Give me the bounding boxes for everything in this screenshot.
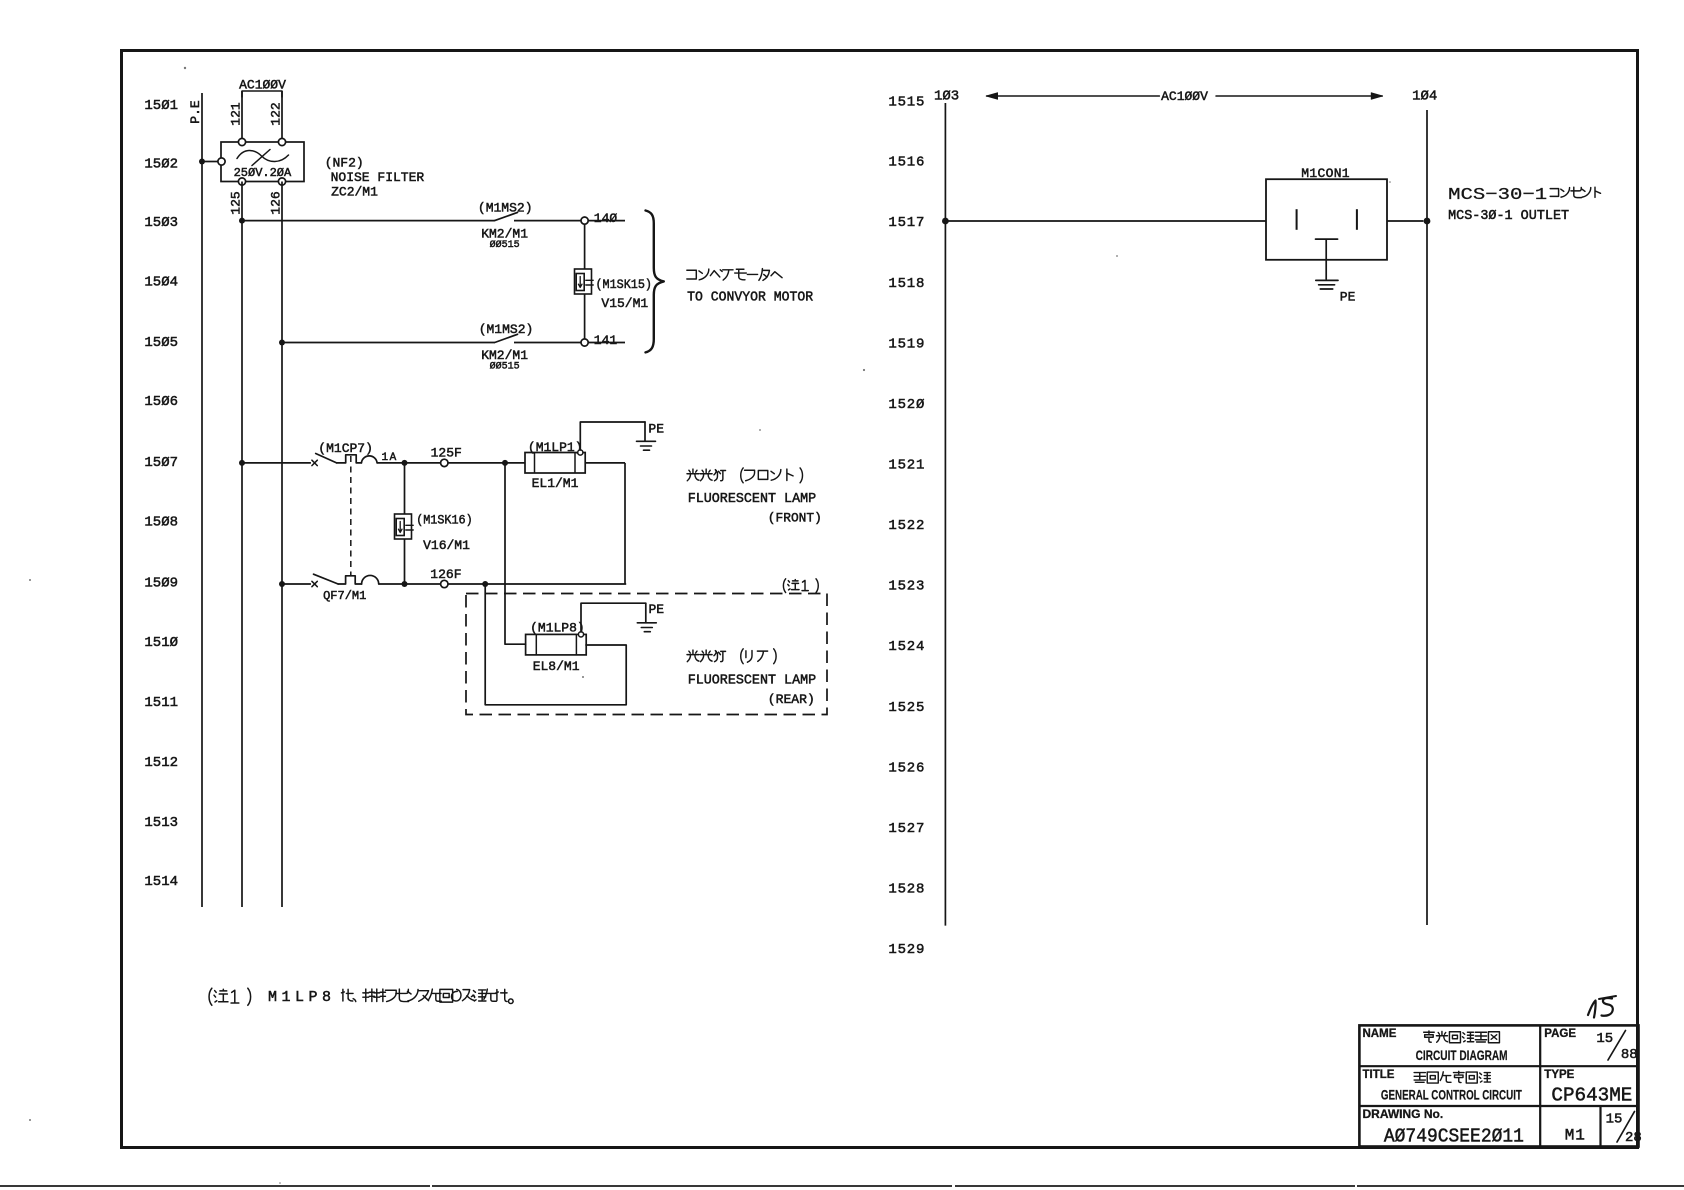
V15 arrow xyxy=(578,277,582,288)
V15 capacitor marks xyxy=(586,280,593,285)
svg-text:15Ø2: 15Ø2 xyxy=(144,157,178,173)
wire 1505 to 141 xyxy=(514,342,581,344)
surge killer V15/M1 (M1SK15) xyxy=(575,269,592,294)
M1CON1 left slot xyxy=(1296,209,1298,230)
svg-text:TO CONVYOR MOTOR: TO CONVYOR MOTOR xyxy=(687,291,813,306)
ground PE (EL1) xyxy=(644,422,646,441)
breaker QF7/M1 blade xyxy=(314,574,339,584)
wire 1509 to EL1 return xyxy=(485,583,626,585)
svg-text:1Ø3: 1Ø3 xyxy=(934,89,959,105)
junction PE/NF2 xyxy=(199,159,205,165)
svg-text:15Ø1: 15Ø1 xyxy=(144,98,178,114)
junction 125/1503 xyxy=(239,218,245,224)
svg-text:125: 125 xyxy=(229,191,244,214)
svg-text:1518: 1518 xyxy=(888,276,925,292)
svg-text:V15/M1: V15/M1 xyxy=(601,296,648,311)
svg-text:(M1LP1): (M1LP1) xyxy=(528,440,583,455)
arrow AC100V span xyxy=(987,95,1383,97)
wire EL8 feed from 1507 xyxy=(505,463,526,644)
svg-text:QF7/M1: QF7/M1 xyxy=(323,589,366,603)
terminal EL1 PE xyxy=(578,450,583,455)
svg-text:GENERAL CONTROL CIRCUIT: GENERAL CONTROL CIRCUIT xyxy=(1381,1088,1523,1103)
wire EL1 right xyxy=(585,462,625,464)
wire 126 (vertical) xyxy=(281,182,283,908)
title (japanese) circuit diagram xyxy=(1424,1031,1500,1043)
svg-text:(NF2): (NF2) xyxy=(325,156,364,171)
wire to EL1 xyxy=(505,462,525,464)
NF2 slash xyxy=(252,150,270,166)
terminal 125F xyxy=(441,459,448,466)
svg-text:15Ø7: 15Ø7 xyxy=(144,455,178,471)
mechanical link dashed xyxy=(350,456,352,576)
terminal 141 xyxy=(581,339,588,346)
terminal 126 (NF2 bottom-right) xyxy=(278,178,285,185)
svg-text:1527: 1527 xyxy=(888,821,925,837)
svg-text:MCS−30−1: MCS−30−1 xyxy=(1448,186,1547,205)
connector mark x (M1CP7) xyxy=(312,460,317,465)
svg-text:1515: 1515 xyxy=(888,95,925,111)
svg-text:AØ749CSEE2Ø11: AØ749CSEE2Ø11 xyxy=(1384,1126,1524,1148)
svg-text:PE: PE xyxy=(648,421,664,436)
junction 1507/V16 xyxy=(402,460,408,466)
noise filter ZC2/M1 (NF2) body xyxy=(221,142,304,182)
wire 140 stub xyxy=(588,220,625,222)
svg-text:1A: 1A xyxy=(382,452,398,464)
breaker QF7/M1 thermal element xyxy=(338,576,362,584)
svg-text:P.E: P.E xyxy=(188,100,203,124)
svg-text:1511: 1511 xyxy=(144,695,178,711)
EL1 right cap xyxy=(574,453,576,474)
svg-text:15Ø9: 15Ø9 xyxy=(144,576,178,592)
connector mark x (QF7) xyxy=(312,581,317,586)
dashed option box (note 1) xyxy=(466,594,827,715)
svg-text:M1: M1 xyxy=(1565,1126,1586,1144)
title block divider v1 xyxy=(1539,1025,1541,1146)
wire bus 104 xyxy=(1426,110,1428,925)
wire bus 103 xyxy=(944,103,946,926)
svg-text:PE: PE xyxy=(649,602,665,617)
svg-text:1521: 1521 xyxy=(888,458,925,474)
wire P.E rail (vertical) xyxy=(201,93,203,907)
(scan specks, decorative) xyxy=(184,67,186,69)
svg-text:ØØ515: ØØ515 xyxy=(490,239,520,251)
ground PE (EL8) xyxy=(645,603,647,622)
svg-text:AC1ØØV: AC1ØØV xyxy=(239,77,286,92)
wire M1CON1 to 104 xyxy=(1387,220,1423,222)
M1CON1 ground pin xyxy=(1316,239,1338,279)
EL1 left cap xyxy=(534,453,536,474)
handwritten pencil mark 15 xyxy=(1588,1001,1596,1018)
wire V15 to 141 xyxy=(584,294,586,339)
svg-text:1514: 1514 xyxy=(144,874,178,890)
breaker M1CP7 magnetic arc xyxy=(361,456,377,463)
brace to conveyor motor xyxy=(646,211,664,353)
svg-text:1517: 1517 xyxy=(888,215,925,231)
breaker M1CP7 thermal element xyxy=(337,455,362,463)
terminal EL8 PE xyxy=(578,632,583,637)
svg-text:FLUORESCENT LAMP: FLUORESCENT LAMP xyxy=(688,492,817,507)
svg-text:(M1LP8): (M1LP8) xyxy=(530,621,585,636)
svg-text:NOISE FILTER: NOISE FILTER xyxy=(331,170,425,185)
junction 126/1505 xyxy=(279,340,285,346)
V16 capacitor marks xyxy=(406,525,413,530)
label (japanese) fluorescent lamp rear xyxy=(687,649,776,664)
svg-text:AC1ØØV: AC1ØØV xyxy=(1161,89,1208,104)
svg-text:15Ø8: 15Ø8 xyxy=(144,515,178,531)
page slash xyxy=(1608,1031,1626,1061)
EL8 right cap xyxy=(575,634,577,655)
svg-text:DRAWING No.: DRAWING No. xyxy=(1363,1107,1444,1121)
terminal 122 (NF2 top-right) xyxy=(278,138,285,145)
svg-text:152Ø: 152Ø xyxy=(888,397,925,413)
wire 1507 xyxy=(242,462,311,464)
breaker M1CP7 blade xyxy=(316,454,337,463)
svg-text:TITLE: TITLE xyxy=(1363,1069,1395,1081)
lamp EL8/M1 (M1LP8) body xyxy=(526,634,587,655)
svg-text:14Ø: 14Ø xyxy=(594,211,618,226)
junction 1509/EL8 xyxy=(482,581,488,587)
wire V16 top xyxy=(404,463,406,514)
svg-text:125F: 125F xyxy=(431,445,462,460)
wire EL8 to PE xyxy=(581,603,646,632)
V16 arrow xyxy=(398,522,402,533)
svg-text:15: 15 xyxy=(1596,1031,1613,1047)
svg-text:PE: PE xyxy=(1340,290,1356,305)
svg-text:ØØ515: ØØ515 xyxy=(490,360,520,372)
svg-text:28: 28 xyxy=(1625,1130,1642,1146)
title block xyxy=(1359,1025,1638,1146)
junction 126/1509 xyxy=(279,581,285,587)
EL8 left cap xyxy=(535,634,537,655)
terminal PE (NF2 left) xyxy=(218,158,225,165)
wire PE to NF2 xyxy=(202,161,218,163)
svg-text:(M1MS2): (M1MS2) xyxy=(479,322,534,337)
svg-text:1519: 1519 xyxy=(888,336,925,352)
wire AC100V feed bracket xyxy=(242,91,282,97)
svg-text:MCS-3Ø-1 OUTLET: MCS-3Ø-1 OUTLET xyxy=(1448,209,1569,224)
title block divider v2 (row3) xyxy=(1599,1106,1601,1147)
svg-text:(REAR): (REAR) xyxy=(768,692,815,707)
title (japanese) general control circuit xyxy=(1414,1071,1490,1083)
wire EL1 to PE xyxy=(580,422,645,450)
arrowhead left xyxy=(987,93,998,99)
svg-text:15Ø4: 15Ø4 xyxy=(144,275,178,291)
wire EL1 return vertical xyxy=(624,463,626,584)
svg-text:126: 126 xyxy=(269,191,284,214)
wire 140 to V15 xyxy=(584,224,586,269)
svg-text:15: 15 xyxy=(1606,1112,1623,1128)
contact KM2/M1 (M1MS2) upper xyxy=(495,212,518,220)
sheet slash xyxy=(1617,1112,1635,1143)
wire 1517 xyxy=(945,220,1266,222)
svg-text:126F: 126F xyxy=(430,567,461,582)
svg-text:15Ø5: 15Ø5 xyxy=(144,335,178,351)
arrowhead right xyxy=(1371,93,1382,99)
svg-text:1512: 1512 xyxy=(144,755,178,771)
svg-text:1525: 1525 xyxy=(888,700,925,716)
svg-text:NAME: NAME xyxy=(1363,1028,1397,1040)
terminal 140 xyxy=(581,217,588,224)
outlet M1CON1 body xyxy=(1266,179,1387,260)
svg-text:15Ø6: 15Ø6 xyxy=(144,394,178,410)
svg-text:EL8/M1: EL8/M1 xyxy=(533,659,580,674)
svg-text:TYPE: TYPE xyxy=(1544,1069,1574,1081)
svg-text:M1LP8: M1LP8 xyxy=(268,989,336,1006)
svg-text:CIRCUIT DIAGRAM: CIRCUIT DIAGRAM xyxy=(1416,1048,1508,1063)
lamp EL1/M1 (M1LP1) body xyxy=(525,453,585,474)
svg-text:1528: 1528 xyxy=(888,882,925,898)
terminal 121 (NF2 top-left) xyxy=(238,138,245,145)
note1 prefix xyxy=(209,988,251,1005)
bottom page scan edge xyxy=(0,1185,1684,1187)
wire 121 (to NF2) xyxy=(241,91,243,142)
svg-text:1524: 1524 xyxy=(888,639,925,655)
svg-text:EL1/M1: EL1/M1 xyxy=(532,476,579,491)
title block divider h2 xyxy=(1359,1105,1638,1107)
junction 103/1517 xyxy=(942,218,949,225)
junction 1507/EL1-EL8 xyxy=(502,460,508,466)
svg-text:(M1MS2): (M1MS2) xyxy=(478,200,533,215)
svg-text:CP643ME: CP643ME xyxy=(1551,1085,1632,1107)
breaker QF7/M1 magnetic arc xyxy=(362,575,379,584)
title block divider h1 xyxy=(1359,1065,1638,1067)
svg-text:1526: 1526 xyxy=(888,760,925,776)
wire 1509 xyxy=(282,583,311,585)
svg-text:1529: 1529 xyxy=(888,942,925,958)
svg-text:121: 121 xyxy=(229,102,244,126)
svg-text:1522: 1522 xyxy=(888,518,925,534)
junction 1509/V16 xyxy=(402,581,408,587)
NF2 sine symbol xyxy=(237,150,289,161)
M1CON1 right slot xyxy=(1356,209,1358,230)
svg-text:1Ø4: 1Ø4 xyxy=(1412,89,1437,105)
wire EL8 return xyxy=(485,584,626,705)
label (japanese) fluorescent lamp front xyxy=(687,468,802,483)
wire 125 (vertical) xyxy=(241,182,243,908)
wire 1503 to 140 xyxy=(514,220,581,222)
label (katakana) konsento xyxy=(1550,187,1600,197)
svg-text:88: 88 xyxy=(1621,1047,1638,1063)
svg-text:(M1CP7): (M1CP7) xyxy=(318,441,373,456)
svg-text:15Ø3: 15Ø3 xyxy=(144,215,178,231)
wire 141 stub xyxy=(588,342,625,344)
svg-text:V16/M1: V16/M1 xyxy=(423,538,470,553)
svg-text:1513: 1513 xyxy=(144,815,178,831)
svg-text:151Ø: 151Ø xyxy=(144,635,178,651)
svg-text:(M1SK15): (M1SK15) xyxy=(596,277,653,292)
svg-text:141: 141 xyxy=(594,333,618,348)
wire 122 (to NF2) xyxy=(281,91,283,142)
ground PE (M1CON1) xyxy=(1316,280,1338,289)
wire 1503 xyxy=(242,220,495,222)
svg-text:1523: 1523 xyxy=(888,579,925,595)
surge killer V16/M1 (M1SK16) xyxy=(395,514,412,539)
terminal 125 (NF2 bottom-left) xyxy=(238,178,245,185)
label (japanese) conveyor motor xyxy=(687,269,782,281)
note1 japanese text xyxy=(341,989,513,1004)
svg-text:122: 122 xyxy=(269,102,284,125)
contact KM2/M1 (M1MS2) lower xyxy=(495,334,518,342)
junction 104/1517 xyxy=(1424,218,1431,225)
svg-text:PAGE: PAGE xyxy=(1544,1028,1576,1040)
terminal 126F xyxy=(441,580,448,587)
svg-text:(FRONT): (FRONT) xyxy=(768,511,822,526)
wire V16 bottom xyxy=(404,539,406,584)
wire 1505 xyxy=(282,342,495,344)
label (note1) at box xyxy=(783,579,818,593)
svg-text:(M1SK16): (M1SK16) xyxy=(416,512,473,527)
junction 125/1507 xyxy=(239,460,245,466)
svg-text:1516: 1516 xyxy=(888,155,925,171)
svg-text:M1CON1: M1CON1 xyxy=(1301,166,1350,181)
svg-text:ZC2/M1: ZC2/M1 xyxy=(331,185,378,200)
svg-text:FLUORESCENT LAMP: FLUORESCENT LAMP xyxy=(688,674,817,689)
